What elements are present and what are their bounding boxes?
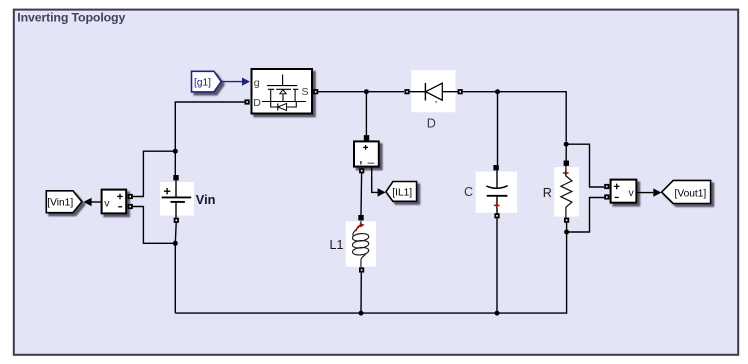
battery long plate [162,196,192,198]
current sensor bottom port [359,168,364,173]
wire: g1 signal arrow to MOSFET gate [221,78,250,86]
svg-text:Vin: Vin [196,192,216,207]
L1 top port [358,215,363,220]
MOSFET internal symbol [267,75,297,86]
Vin top port [173,175,178,180]
Goto tag [Vout1] [662,180,711,203]
U4 + input port [604,184,609,189]
R bottom port [564,218,569,223]
Goto tag [Vin1] [46,191,82,213]
straight plate [487,195,508,197]
C top port [493,165,498,170]
node E junction bottom bus below L1 [359,311,364,316]
wire: node C to R top port [565,144,567,160]
diode mark dot [435,101,437,103]
wire: node A down to current sensor top [365,92,367,135]
red polarity plus on R [563,170,569,176]
svg-text:Inverting Topology: Inverting Topology [17,11,125,25]
capacitor C [464,171,517,215]
zigzag [561,166,572,218]
wire: node G down to Vin top port [174,151,176,175]
svg-text:C: C [464,185,473,199]
MOSFET D port [245,99,250,104]
svg-text:v: v [629,187,635,199]
MOSFET S port [313,89,318,94]
wire: Vin bottom port to node H [174,223,177,244]
diode left port [404,89,409,94]
node B junction above C branch [495,89,500,94]
voltage sensor U4 (Vout measurement) [611,180,637,203]
wire: MOSFET D input left then down to node G [175,102,244,151]
wire: U4 output arrow to Vout1 tag [636,188,661,196]
diode right port [458,89,463,94]
wire: current sensor bottom to L1 top port [360,173,363,215]
current sensor U2 block [354,141,379,166]
From tag [g1] [192,71,222,92]
wire: top bus from MOSFET S to diode anode [318,91,404,93]
wire: U3 output arrow to Vin1 tag [83,198,101,206]
inductor L1 [330,221,377,267]
wire: node H down to bottom bus corner [174,243,176,313]
node H junction left column bottom [173,241,178,246]
node A junction above L1 branch [364,89,369,94]
svg-text:[Vout1]: [Vout1] [675,188,707,199]
L1 bottom port [359,267,364,272]
U4 - input port [604,194,609,199]
svg-text:[IL1]: [IL1] [392,188,412,199]
wire: capacitor bottom port to node F [496,218,498,313]
wire: L1 bottom port to node E [360,273,362,314]
node G junction left column top [173,149,178,154]
plus sign [164,188,170,194]
wire: node D branch to Vout sensor - input [567,198,605,233]
node D junction below R [564,230,569,235]
wire: current sensor signal to IL1 tag [372,167,386,197]
diode D block [410,70,459,130]
svg-text:[g1]: [g1] [194,78,211,89]
R top port [564,161,569,166]
red polarity arrow on L1 [356,225,361,231]
U3 - input port [128,204,133,209]
voltage sensor U3 (Vin measurement) [102,190,127,214]
coil winding [353,221,361,236]
Vin bottom port [174,218,179,223]
svg-text:g: g [254,77,260,89]
DC voltage source Vin [160,181,216,220]
svg-text:L1: L1 [330,238,344,252]
wire: R bottom port to node D [566,223,568,232]
svg-text:v: v [104,197,110,209]
wire: node D down and bottom bus to left column [175,232,566,313]
Goto tag [IL1] [386,182,417,202]
svg-text:[Vin1]: [Vin1] [47,198,73,209]
svg-text:D: D [427,117,436,131]
curved plate [486,186,507,189]
node F junction bottom bus below C [495,311,500,316]
current sensor top port [364,135,369,140]
wire: node C branch to Vout sensor + input [566,144,604,187]
svg-text:S: S [302,86,309,98]
wire: diode cathode to right corner down to node C [463,92,566,142]
U3 + input port [128,194,133,199]
wire: node H branch to Vin sensor - input [133,207,176,244]
svg-text:R: R [543,186,552,200]
wire: node B down to capacitor top [497,92,499,165]
node C junction above R [564,142,569,147]
svg-text:D: D [253,97,261,109]
battery short plate [171,201,185,203]
MOSFET U1 block [252,69,313,114]
C bottom port [494,213,499,218]
wire: node G branch to Vin sensor + input [133,151,176,196]
red polarity plus on C [494,203,500,209]
resistor R [543,166,579,218]
